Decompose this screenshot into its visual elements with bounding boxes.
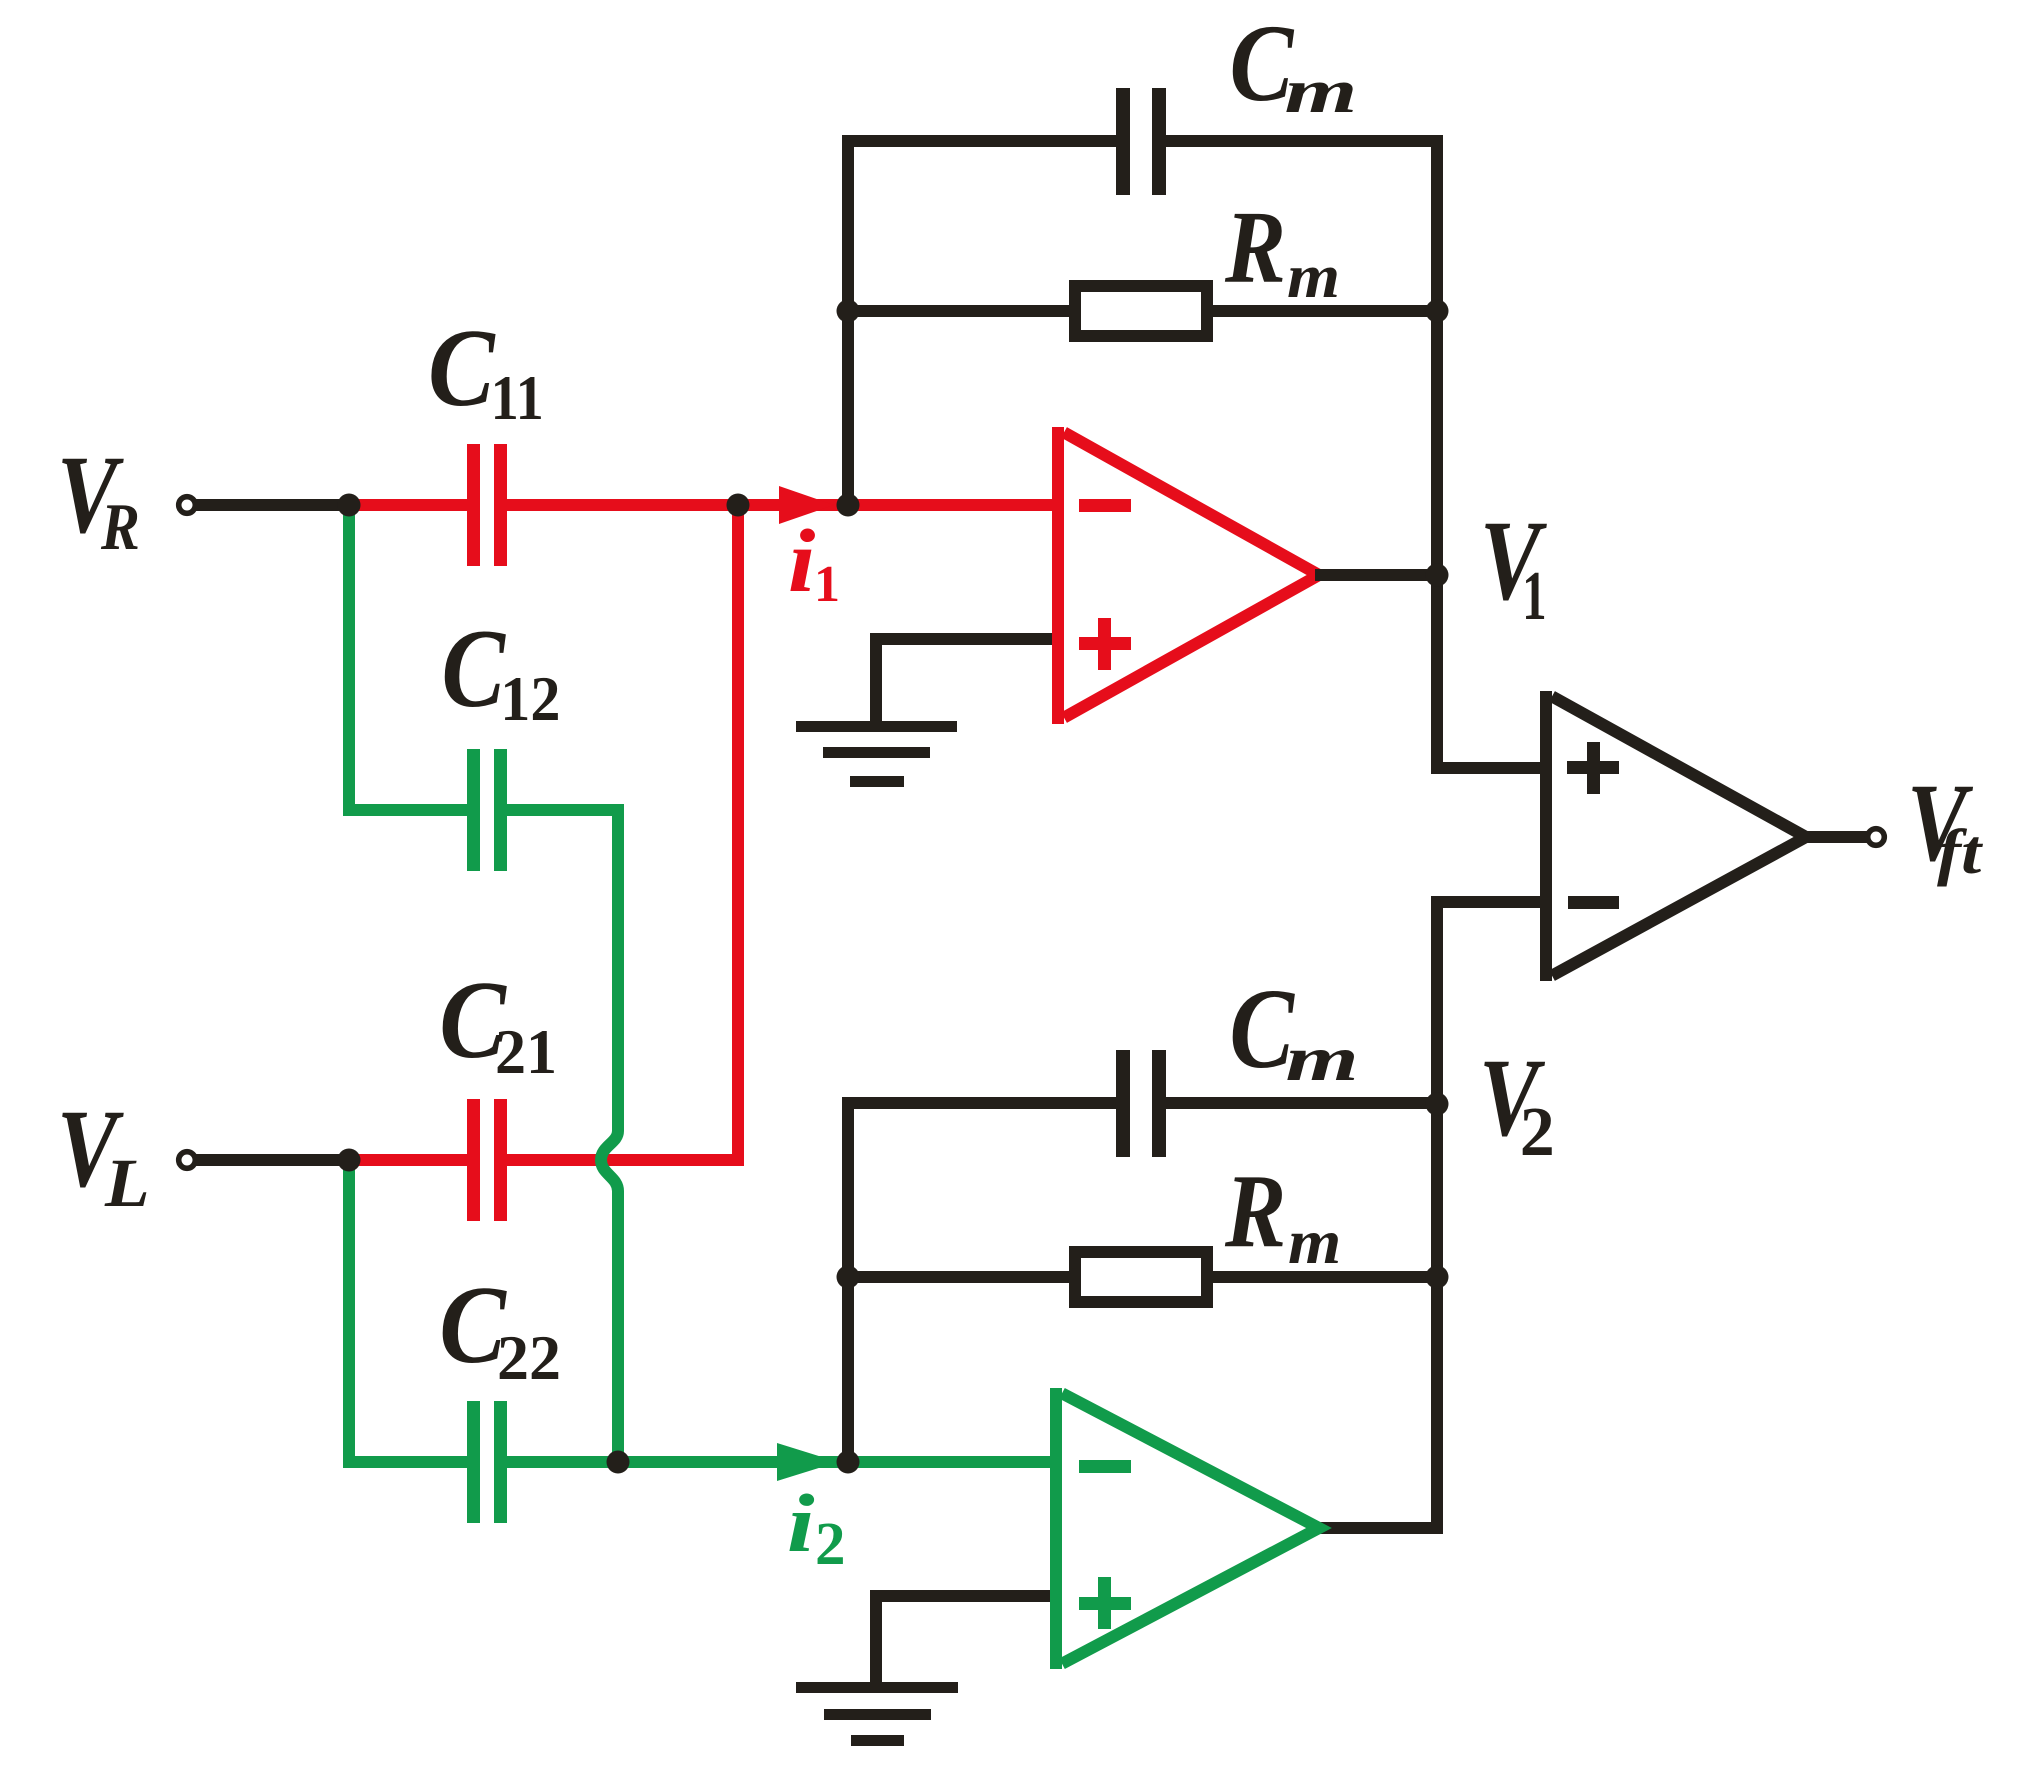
wire Rm row left (lower) — [848, 1271, 1075, 1283]
svg-text:ft: ft — [1937, 816, 1983, 887]
capacitor C21 — [467, 1099, 507, 1221]
node B (red column junction) — [727, 494, 750, 517]
node E (green column junction) — [607, 1451, 630, 1474]
wire node E to node F (green) — [618, 1456, 850, 1468]
wire U2 non-inverting input — [876, 1596, 1060, 1687]
label VR — [57, 434, 140, 564]
wire U1 output — [1315, 569, 1443, 581]
svg-text:1: 1 — [1522, 558, 1546, 636]
input terminal VL — [179, 1152, 196, 1169]
U2 minus symbol — [1079, 1460, 1131, 1473]
node A (VR junction) — [338, 494, 361, 517]
op-amp U3 (black output stage) — [1552, 696, 1806, 975]
svg-text:L: L — [104, 1146, 150, 1222]
op-amp U1 (red) — [1064, 432, 1319, 717]
svg-text:C: C — [442, 607, 507, 731]
lower feedback top wire (right of Cm) — [1164, 1097, 1443, 1109]
U3 plus symbol — [1567, 742, 1619, 794]
capacitor Cm (upper) — [1116, 88, 1166, 195]
svg-text:R: R — [1224, 1153, 1286, 1269]
right vertical wire V1 column — [1437, 135, 1546, 768]
upper feedback top wire (right of Cm) — [1164, 135, 1443, 147]
capacitor Cm (lower) — [1116, 1050, 1166, 1157]
op-amp U2 (green) — [1062, 1393, 1319, 1663]
wire C12 to green column — [507, 810, 618, 1131]
capacitor C12 — [467, 749, 507, 871]
svg-text:1: 1 — [814, 556, 840, 613]
resistor Rm (lower) — [1075, 1252, 1207, 1302]
wire VR terminal to node A — [196, 499, 352, 511]
node C (U1 inverting input junction) — [837, 494, 860, 517]
svg-text:R: R — [100, 489, 140, 564]
svg-text:m: m — [1286, 1024, 1359, 1095]
ground (lower) — [796, 1682, 958, 1746]
node V1 — [1426, 564, 1449, 587]
capacitor C11 — [467, 444, 507, 566]
wire node A to C11 (red) — [349, 499, 469, 511]
wire C22 to node E (green) — [507, 1456, 779, 1468]
label Vft — [1907, 761, 1983, 887]
svg-text:22: 22 — [497, 1322, 561, 1393]
upper feedback loop: left vertical wire — [842, 135, 854, 498]
current arrow i1 — [779, 486, 834, 524]
svg-text:11: 11 — [491, 363, 544, 434]
capacitor C22 — [467, 1401, 507, 1523]
U1 minus symbol — [1079, 499, 1131, 512]
green column hop over VL wire — [601, 1131, 618, 1191]
green branch from node A down to C12 — [349, 505, 469, 810]
current arrow i2 — [777, 1443, 838, 1481]
node V2 — [1426, 1093, 1449, 1116]
wire U1 non-inverting input — [876, 639, 1062, 726]
label Rm (lower) — [1224, 1153, 1341, 1277]
svg-text:2: 2 — [1520, 1094, 1555, 1171]
svg-text:m: m — [1288, 1207, 1341, 1277]
svg-text:R: R — [1224, 191, 1286, 306]
U3 minus symbol — [1568, 896, 1619, 909]
lower feedback top wire (left of Cm) — [842, 1097, 1118, 1109]
green branch from node D down to C22 — [349, 1160, 469, 1462]
U2 plus symbol — [1079, 1577, 1131, 1629]
svg-text:C: C — [428, 306, 496, 429]
wire node B to node C (red) — [738, 499, 850, 511]
node D (VL junction) — [338, 1149, 361, 1172]
wire Rm row right (upper) — [1207, 305, 1437, 317]
U1 plus symbol — [1079, 618, 1131, 670]
node Rm right (upper) — [1426, 300, 1449, 323]
svg-text:12: 12 — [500, 664, 560, 734]
wire V2 column to U3 inverting input — [1315, 902, 1546, 1528]
svg-text:m: m — [1285, 57, 1358, 126]
label i1 — [788, 512, 840, 613]
label C22 — [439, 1263, 561, 1393]
label Rm (upper) — [1224, 191, 1340, 312]
resistor Rm (upper) — [1075, 286, 1207, 336]
green column lower segment — [612, 1191, 624, 1462]
label V1 — [1480, 499, 1547, 636]
wire C21 to red column (red) — [507, 1154, 738, 1166]
label i2 — [787, 1477, 846, 1578]
ground (upper) — [796, 721, 957, 787]
label C12 — [442, 607, 561, 735]
wire Rm row left (upper) — [848, 305, 1075, 317]
svg-text:21: 21 — [495, 1016, 557, 1087]
svg-text:i: i — [787, 1477, 815, 1569]
svg-text:2: 2 — [815, 1511, 846, 1578]
lower feedback loop: left vertical wire — [842, 1097, 854, 1455]
label Cm (lower) — [1229, 966, 1358, 1095]
label Cm (upper) — [1230, 3, 1358, 126]
red column vertical wire — [732, 505, 744, 1166]
input terminal VR — [179, 497, 196, 514]
node Rm right (lower) — [1426, 1266, 1449, 1289]
output terminal Vft — [1868, 829, 1885, 846]
upper feedback top wire (left of Cm) — [842, 135, 1118, 147]
wire Rm row right (lower) — [1207, 1271, 1437, 1283]
wire VL terminal to node D — [196, 1154, 352, 1166]
label VL — [57, 1088, 150, 1222]
node Rm left (upper) — [837, 300, 860, 323]
label C21 — [439, 958, 557, 1087]
label V2 — [1479, 1036, 1555, 1171]
node Rm left (lower) — [837, 1266, 860, 1289]
wire C11 to node B (red) — [507, 499, 740, 511]
label C11 — [428, 306, 544, 434]
node F (U2 inverting input junction) — [837, 1451, 860, 1474]
wire U3 output — [1802, 831, 1867, 843]
wire node C to U1 inverting input (red) — [848, 499, 1062, 511]
wire node D to C21 (red) — [349, 1154, 469, 1166]
wire node F to U2 inverting input (green) — [848, 1456, 1060, 1468]
svg-text:m: m — [1287, 243, 1340, 311]
svg-text:i: i — [788, 512, 816, 611]
